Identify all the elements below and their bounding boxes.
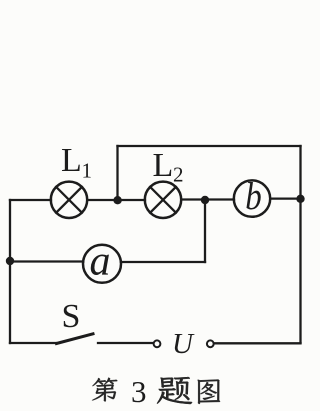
node between L1 and L2 — [113, 196, 121, 204]
wire right rail — [299, 146, 301, 343]
lamp L1 — [51, 182, 87, 218]
svg-text:L: L — [153, 147, 174, 184]
meter a (circle) — [83, 245, 121, 283]
node at ammeter branch top — [201, 196, 209, 204]
wire main left segment — [10, 199, 51, 201]
caption char 3 — [131, 374, 147, 409]
wire ammeter-branch right segment — [121, 261, 205, 263]
lamp L2 — [145, 182, 181, 218]
node at right rail — [296, 195, 304, 203]
wire meter b to right rail — [270, 197, 300, 199]
label L2 — [153, 147, 184, 186]
wire source to right rail — [214, 342, 301, 344]
svg-text:U: U — [172, 328, 195, 360]
label b — [245, 174, 261, 217]
svg-text:S: S — [62, 298, 81, 335]
wire ammeter-branch left segment — [10, 260, 83, 262]
wire between L1 and L2 — [87, 199, 145, 201]
svg-text:b: b — [245, 174, 261, 217]
caption char 题 — [157, 377, 192, 404]
svg-text:L: L — [61, 142, 82, 179]
svg-text:1: 1 — [82, 159, 93, 183]
svg-text:a: a — [90, 239, 111, 285]
label L1 — [61, 142, 92, 183]
wire bottom left segment — [10, 342, 56, 344]
label U — [172, 328, 195, 360]
wire left rail — [9, 200, 11, 343]
svg-text:3: 3 — [131, 374, 147, 409]
source terminal left — [154, 340, 161, 347]
caption char 图 — [198, 380, 220, 404]
label S — [62, 298, 81, 335]
wire switch to source terminal — [98, 342, 153, 344]
wire top — [118, 145, 301, 147]
source terminal right — [207, 340, 214, 347]
svg-text:2: 2 — [173, 163, 184, 187]
node at left rail — [6, 257, 14, 265]
caption char 第 — [92, 378, 117, 402]
meter b (circle) — [234, 180, 270, 216]
wire between L2 and meter b — [181, 198, 234, 200]
wire ammeter-branch vertical up — [204, 200, 206, 262]
switch S blade — [57, 334, 94, 344]
wire inner vertical to node between L1 and L2 — [116, 146, 118, 200]
label a — [90, 239, 111, 285]
